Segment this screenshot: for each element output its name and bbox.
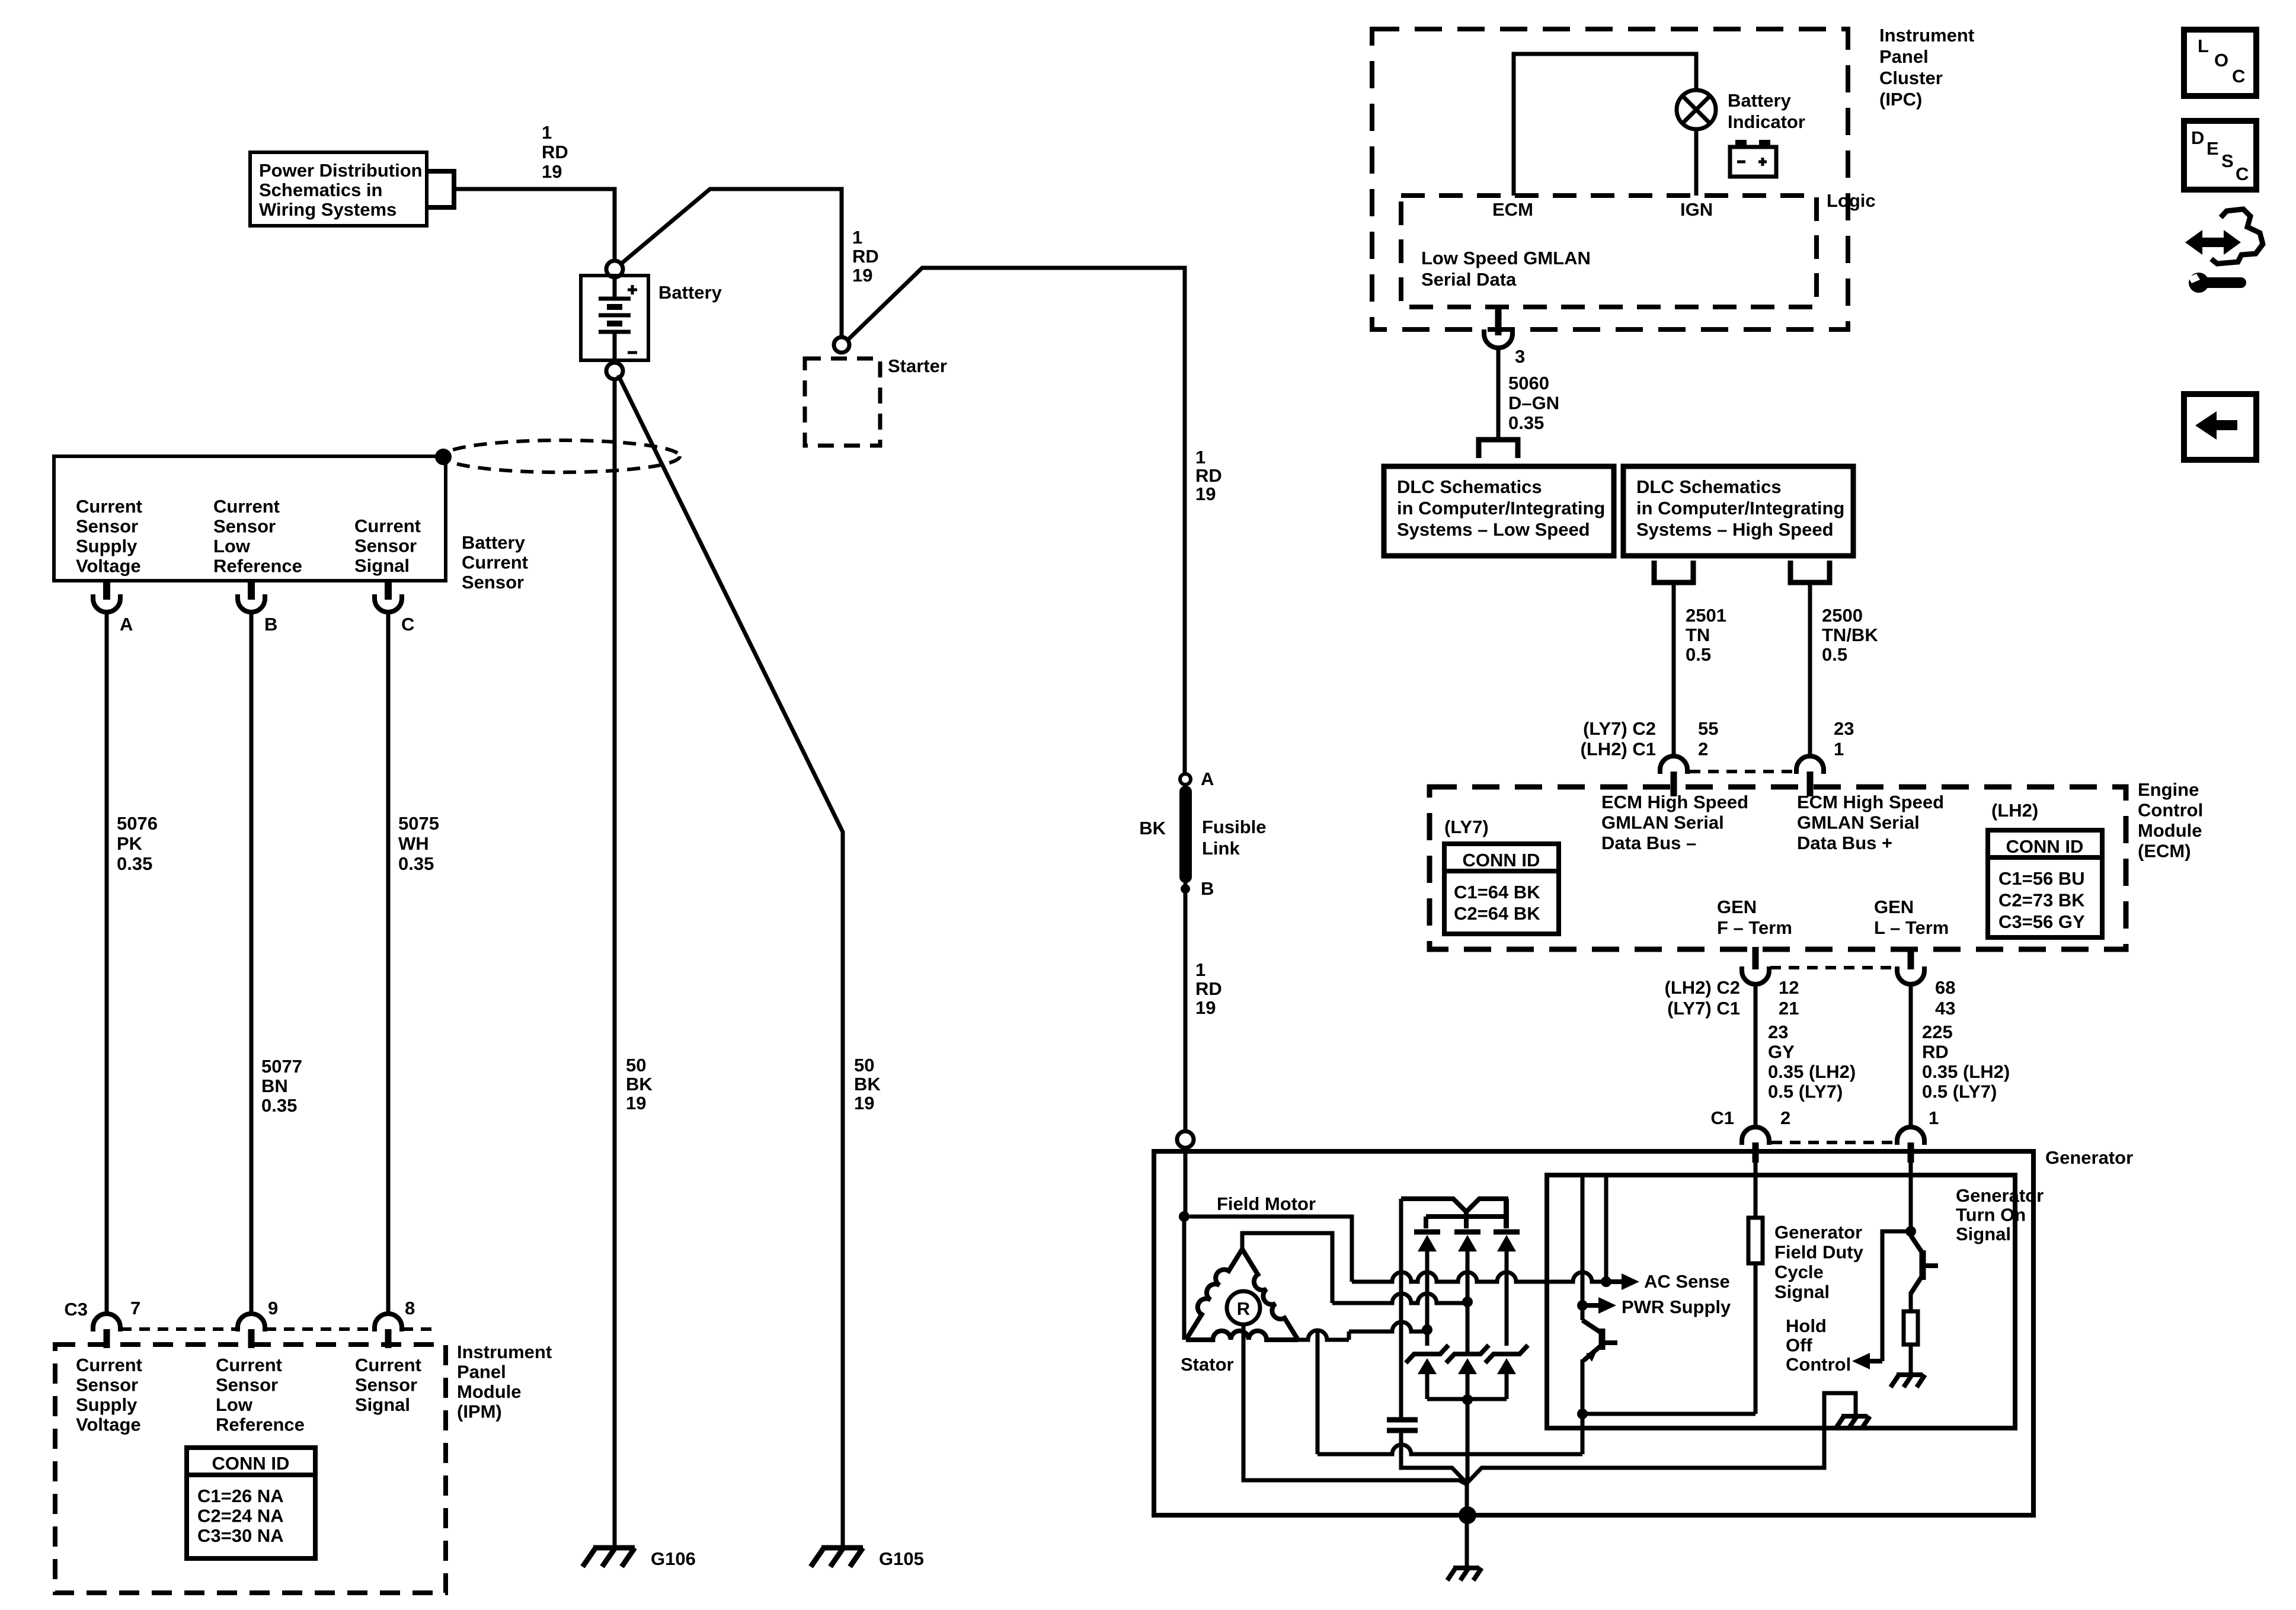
icon box back arrow [2184,394,2256,460]
svg-text:Battery: Battery [462,532,526,553]
IPC logic output pin stub [1495,307,1502,335]
connector pin A of sensor [103,581,110,600]
svg-text:Generator: Generator [1774,1222,1862,1243]
svg-text:Sensor: Sensor [354,536,417,556]
svg-text:Instrument: Instrument [457,1342,552,1362]
svg-text:GEN: GEN [1717,897,1757,917]
svg-text:2: 2 [1698,739,1708,760]
wire resistor R2 to ground [1909,1345,1913,1374]
diode D2 upper [1454,1230,1480,1235]
svg-text:Indicator: Indicator [1728,111,1805,132]
wire GEN L-Term [1909,984,1913,1127]
svg-text:C2=24 NA: C2=24 NA [197,1506,284,1526]
svg-text:F – Term: F – Term [1717,917,1792,938]
wire 2500 TN/BK [1808,585,1812,757]
wire rotor to ground bus [1243,1324,1467,1484]
wire 5077 BN circuit B [250,613,254,1314]
ECM L-Term pin stub [1908,947,1914,969]
svg-text:Current: Current [462,552,528,573]
svg-text:Panel: Panel [1879,46,1929,67]
wire rectifier positive bus [1401,1199,1506,1228]
svg-text:0.35: 0.35 [398,853,434,874]
CONN ID box IPM [187,1448,315,1558]
svg-text:C1=26 NA: C1=26 NA [197,1486,284,1506]
junction dot phase B to diode column 1 [1422,1324,1432,1335]
svg-text:Current: Current [76,496,142,517]
zener diode D6 lower [1485,1345,1528,1363]
battery B1 [581,276,648,360]
svg-text:ECM: ECM [1492,199,1533,220]
svg-text:Cluster: Cluster [1879,68,1943,88]
svg-text:23: 23 [1834,718,1854,739]
wire W1 Power Distribution to Battery positive [454,189,615,261]
wire 5076 PK circuit A [105,613,109,1314]
svg-text:19: 19 [1195,997,1216,1018]
svg-text:in Computer/Integrating: in Computer/Integrating [1397,498,1605,518]
svg-text:Data Bus +: Data Bus + [1797,833,1892,853]
transistor Q1 (field driver) [1582,1320,1600,1332]
bracket into DLC low speed box [1479,440,1518,458]
svg-text:9: 9 [268,1298,278,1318]
wire W3 starter to fusible link (top run) [848,268,1185,774]
ground hold-off [1841,1414,1868,1419]
svg-text:8: 8 [405,1298,415,1318]
svg-text:G105: G105 [879,1548,924,1569]
svg-text:(LH2) C1: (LH2) C1 [1581,739,1656,760]
wire rectifier inner bus [1426,1214,1506,1219]
svg-text:Control: Control [2138,800,2203,821]
wire B+ vertical to capacitor [1399,1199,1403,1419]
svg-text:in Computer/Integrating: in Computer/Integrating [1636,498,1844,518]
svg-text:(LY7) C1: (LY7) C1 [1667,998,1740,1019]
generator B+ terminal circle [1177,1131,1194,1148]
svg-text:5076: 5076 [117,813,158,834]
svg-text:225: 225 [1922,1022,1953,1042]
svg-text:Wiring Systems: Wiring Systems [259,199,396,220]
svg-text:55: 55 [1698,718,1718,739]
svg-text:CONN ID: CONN ID [1463,850,1540,870]
svg-text:GY: GY [1768,1042,1795,1062]
battery positive terminal circle [606,261,623,277]
junction dot on sensor box corner [435,449,452,465]
svg-text:E: E [2207,138,2219,159]
resistor R2 turn-on signal [1904,1311,1918,1345]
svg-text:Voltage: Voltage [76,556,141,577]
svg-text:50: 50 [854,1055,874,1076]
svg-text:ECM High Speed: ECM High Speed [1601,792,1748,812]
svg-text:2501: 2501 [1686,605,1726,626]
svg-text:Link: Link [1202,838,1240,859]
svg-text:Turn On: Turn On [1956,1205,2026,1225]
svg-text:(LH2) C2: (LH2) C2 [1665,977,1740,998]
generator pin 2 connector cup [1742,1127,1769,1145]
svg-text:(LY7) C2: (LY7) C2 [1583,718,1656,739]
svg-text:(IPM): (IPM) [457,1401,502,1422]
svg-text:50: 50 [626,1055,646,1076]
svg-text:Fusible: Fusible [1202,817,1267,837]
svg-text:WH: WH [398,833,429,854]
svg-text:DLC Schematics: DLC Schematics [1636,476,1782,497]
junction dot phase A to diode column 2 [1462,1297,1473,1307]
svg-text:Battery: Battery [1728,90,1792,111]
wire lamp to IGN [1694,129,1699,196]
wire ground bus right branch [1467,1393,1856,1483]
svg-text:C1=56 BU: C1=56 BU [1998,868,2085,889]
battery plus sign [628,289,637,292]
diode D1 upper [1414,1230,1440,1235]
svg-text:1: 1 [1195,959,1205,980]
wire stator phase A (apex) [1242,1233,1332,1303]
svg-text:G106: G106 [651,1548,696,1569]
svg-text:C2=73 BK: C2=73 BK [1998,890,2085,911]
svg-text:0.35 (LH2): 0.35 (LH2) [1922,1061,2010,1082]
svg-text:Supply: Supply [76,536,137,556]
svg-text:Field Motor: Field Motor [1217,1193,1316,1214]
wire generator pin 1 to turn-on node [1909,1163,1913,1231]
svg-text:Reference: Reference [216,1414,305,1435]
svg-text:Signal: Signal [1956,1224,2011,1244]
svg-text:L – Term: L – Term [1874,917,1949,938]
svg-text:Systems – Low Speed: Systems – Low Speed [1397,519,1590,540]
fusible link FL1 [1179,786,1192,883]
wire stator return to ground bus A [1316,1331,1320,1454]
svg-text:GMLAN Serial: GMLAN Serial [1601,812,1724,833]
box Engine Control Module ECM (dashed) [1430,787,2126,949]
svg-text:Current: Current [354,516,421,536]
svg-text:ECM High Speed: ECM High Speed [1797,792,1944,812]
svg-text:0.35: 0.35 [117,853,152,874]
capacitor C1 noise suppressor [1387,1417,1418,1423]
svg-text:0.5: 0.5 [1822,644,1847,665]
junction dot Q1 emitter node [1577,1409,1588,1419]
wire GEN F-Term [1754,984,1758,1127]
svg-text:0.5 (LY7): 0.5 (LY7) [1768,1081,1843,1102]
svg-text:Current: Current [76,1355,142,1375]
svg-text:Signal: Signal [354,555,410,576]
resistor R1 field duty cycle [1748,1218,1763,1263]
svg-text:Instrument: Instrument [1879,25,1974,46]
svg-text:PK: PK [117,833,143,854]
svg-text:RD: RD [542,142,568,162]
svg-text:Stator: Stator [1181,1354,1234,1375]
svg-text:Current: Current [216,1355,282,1375]
ECM connector cup (bus -) [1660,756,1687,774]
wire field duty resistor return [1582,1412,1755,1416]
wire resistor R1 to return line [1754,1263,1758,1414]
svg-text:CONN ID: CONN ID [212,1453,290,1474]
stator delta winding [1186,1249,1242,1340]
junction dot negative bus [1462,1394,1473,1405]
svg-text:A: A [120,614,133,635]
svg-text:Supply: Supply [76,1394,137,1415]
svg-text:C2=64 BK: C2=64 BK [1454,903,1540,924]
svg-text:Cycle: Cycle [1774,1262,1824,1282]
arrow AC Sense [1606,1279,1624,1284]
connector pin B of sensor [248,581,255,600]
wire field feed (B+ node to regulator) [1189,1217,1352,1282]
svg-text:19: 19 [1195,484,1216,504]
wire 50 BK to G105 (diagonal) [618,375,843,1547]
zener diode D5 lower [1446,1345,1489,1363]
svg-text:GMLAN Serial: GMLAN Serial [1797,812,1920,833]
battery minus sign [628,351,637,354]
svg-text:TN/BK: TN/BK [1822,625,1878,645]
svg-text:(ECM): (ECM) [2138,841,2191,862]
svg-text:RD: RD [1922,1042,1949,1062]
svg-text:Generator: Generator [1956,1185,2044,1206]
svg-text:IGN: IGN [1680,199,1713,220]
svg-text:Low: Low [216,1394,253,1415]
box Battery Current Sensor [54,456,446,581]
battery indicator lamp circle [1677,90,1716,129]
svg-text:12: 12 [1779,977,1799,998]
svg-text:0.5 (LY7): 0.5 (LY7) [1922,1081,1997,1102]
junction dot turn-on node [1905,1226,1916,1237]
svg-text:Sensor: Sensor [76,516,138,537]
svg-text:5060: 5060 [1508,373,1549,393]
svg-text:BK: BK [854,1074,881,1094]
wire B+ into generator [1184,1148,1188,1212]
CONN ID box LH2 [1988,830,2102,937]
svg-text:C3: C3 [64,1299,88,1320]
svg-text:(LY7): (LY7) [1444,817,1489,837]
ECM connector cup (bus +) [1796,756,1824,774]
svg-text:0.35: 0.35 [1508,412,1544,433]
wire stator phase B (right vertex) [1298,1330,1349,1340]
wire negative bus to ground node [1466,1399,1470,1483]
ground generator case [1453,1566,1479,1570]
svg-text:Data Bus –: Data Bus – [1601,833,1696,853]
svg-text:B: B [264,614,277,635]
svg-text:Starter: Starter [888,356,947,376]
svg-text:A: A [1201,769,1214,789]
rotor circle R [1227,1291,1260,1324]
svg-text:Signal: Signal [355,1394,410,1415]
svg-text:1: 1 [1929,1108,1939,1128]
svg-text:B: B [1201,878,1214,899]
CONN ID box LY7 [1444,844,1559,934]
svg-text:C: C [2232,66,2245,87]
IPM pin 8 connector cup [375,1314,402,1331]
starter box (dashed) [805,359,880,446]
svg-text:Current: Current [355,1355,421,1375]
svg-text:1: 1 [1195,447,1205,468]
wire Q2 emitter to resistor [1909,1292,1913,1311]
dashed connector row above generator [1771,1141,1894,1144]
svg-text:1: 1 [852,227,862,248]
dashed connector row C3 at IPM [121,1327,237,1331]
svg-text:RD: RD [852,246,879,267]
wire 5075 WH circuit C [386,613,391,1314]
wire hold off control to turn-on node [1882,1231,1911,1361]
svg-text:C1=64 BK: C1=64 BK [1454,882,1540,902]
svg-text:43: 43 [1935,998,1955,1019]
IPC connector cup [1484,329,1512,348]
svg-text:C1: C1 [1710,1108,1734,1128]
svg-text:O: O [2214,50,2228,71]
svg-text:21: 21 [1779,998,1799,1019]
svg-text:0.35: 0.35 [261,1095,297,1116]
ECM F-Term connector cup [1742,966,1769,984]
junction dot AC sense node [1601,1276,1611,1287]
battery indicator lamp X [1683,96,1710,123]
box Logic (dashed) [1401,196,1817,307]
svg-text:TN: TN [1686,625,1710,645]
wire V2 regulator left leg [1581,1175,1585,1320]
junction dot PWR supply tap [1577,1300,1588,1311]
svg-text:Module: Module [457,1381,522,1402]
svg-text:Generator: Generator [2045,1147,2133,1168]
dashed connector row at ECM top [1690,770,1794,773]
transistor Q2 (turn-on) [1911,1235,1921,1251]
svg-text:23: 23 [1768,1022,1788,1042]
svg-text:C: C [2236,164,2249,184]
svg-text:5077: 5077 [261,1056,302,1077]
svg-text:Module: Module [2138,820,2202,841]
svg-text:Off: Off [1786,1335,1812,1356]
icon wrench and arrows [2185,230,2241,255]
icon box LOC [2184,30,2256,96]
svg-text:19: 19 [626,1093,646,1113]
svg-text:RD: RD [1195,978,1222,999]
svg-text:BN: BN [261,1076,288,1096]
wire generator pin 2 into regulator [1754,1163,1758,1218]
wire V3 AC sense leg [1604,1175,1609,1282]
svg-text:Logic: Logic [1827,190,1876,211]
zener diode D4 lower [1406,1345,1448,1363]
ECM F-Term pin stub [1753,947,1759,969]
svg-text:(IPC): (IPC) [1879,89,1922,110]
ground G106 [593,1545,635,1551]
connector pin C of sensor [385,581,392,600]
svg-text:C3=56 GY: C3=56 GY [1998,911,2085,932]
ground G105 [821,1545,863,1551]
wire 2501 TN [1672,585,1676,757]
svg-text:Power Distribution: Power Distribution [259,160,423,181]
wire ground node to chassis [1465,1483,1469,1567]
svg-text:D–GN: D–GN [1508,393,1559,414]
wire 5060 D-GN [1496,348,1501,438]
starter terminal circle [834,337,849,353]
svg-text:1: 1 [542,122,552,143]
svg-text:Engine: Engine [2138,779,2199,800]
box voltage regulator (inner) [1547,1175,2015,1428]
svg-text:Low: Low [213,536,251,556]
svg-text:Hold: Hold [1786,1315,1827,1336]
wire rectifier negative bus [1427,1397,1507,1401]
IPM pin 7 connector cup [93,1314,120,1331]
bracket from DLC high speed box (bus +) [1790,561,1830,582]
svg-text:D: D [2191,127,2204,148]
fusible link terminal A circle [1180,774,1191,785]
svg-text:2: 2 [1780,1108,1790,1128]
svg-text:Reference: Reference [213,556,302,577]
svg-text:S: S [2221,151,2234,171]
svg-text:3: 3 [1515,346,1525,367]
ground turn-on signal [1897,1372,1923,1377]
svg-text:68: 68 [1935,977,1955,998]
svg-text:7: 7 [130,1298,140,1318]
svg-text:(LH2): (LH2) [1991,800,2038,821]
svg-text:CONN ID: CONN ID [2006,836,2084,857]
svg-text:19: 19 [542,161,562,182]
wire B+ node down to stator [1182,1217,1187,1340]
box DLC Schematics High Speed [1623,466,1853,556]
svg-text:0.35 (LH2): 0.35 (LH2) [1768,1061,1856,1082]
svg-text:Voltage: Voltage [76,1414,141,1435]
bracket from DLC high speed box (bus -) [1654,561,1693,582]
svg-text:Sensor: Sensor [355,1375,417,1395]
wire field line with jump humps [1352,1272,1601,1282]
svg-text:2500: 2500 [1822,605,1863,626]
arrow PWR Supply [1582,1303,1601,1308]
svg-text:Battery: Battery [658,282,722,303]
svg-text:Serial Data: Serial Data [1421,269,1517,290]
svg-text:Sensor: Sensor [216,1375,278,1395]
svg-text:AC Sense: AC Sense [1644,1271,1730,1292]
svg-text:Control: Control [1786,1354,1851,1375]
junction dot generator ground [1459,1506,1476,1524]
wire W2 battery positive to starter [621,189,842,337]
box Instrument Panel Module IPM (dashed) [55,1345,446,1593]
wire 50 BK to G106 [613,379,617,1547]
svg-text:R: R [1237,1298,1250,1319]
svg-text:PWR Supply: PWR Supply [1622,1297,1731,1317]
svg-text:Sensor: Sensor [76,1375,138,1395]
generator pin 1 connector cup [1897,1127,1924,1145]
box Generator [1154,1151,2033,1515]
svg-text:Low Speed GMLAN: Low Speed GMLAN [1421,248,1591,268]
svg-text:Signal: Signal [1774,1282,1830,1302]
svg-text:19: 19 [854,1093,874,1113]
wire fusible link to generator B+ [1184,883,1188,1131]
svg-text:L: L [2198,36,2209,56]
svg-text:19: 19 [852,265,872,286]
svg-text:5075: 5075 [398,813,439,834]
svg-text:BK: BK [1139,818,1166,838]
svg-text:GEN: GEN [1874,897,1914,917]
current sensor dashed ellipse loop [443,440,680,472]
fusible link terminal B dot [1181,884,1190,894]
wire capacitor to ground bus [1401,1430,1467,1483]
svg-text:C: C [401,614,414,635]
arrow Hold Off Control [1868,1359,1882,1363]
IPM pin 9 connector cup [238,1314,265,1331]
bracket connector from Power Distribution box [427,171,454,207]
diode D3 upper [1494,1230,1520,1235]
svg-text:Schematics in: Schematics in [259,180,382,200]
box DLC Schematics Low Speed [1384,466,1614,556]
junction dot B+ node [1179,1211,1189,1222]
svg-text:BK: BK [626,1074,653,1094]
wire Q1 emitter down [1581,1359,1585,1454]
wire ECM to IGN inside IPC [1514,54,1696,196]
svg-text:Current: Current [213,496,280,517]
svg-text:RD: RD [1195,465,1222,486]
icon box DESC [2184,121,2256,190]
battery cell plates [613,277,617,299]
svg-text:DLC Schematics: DLC Schematics [1397,476,1542,497]
svg-text:Field Duty: Field Duty [1774,1242,1864,1263]
svg-text:0.5: 0.5 [1686,644,1711,665]
ECM L-Term connector cup [1897,966,1924,984]
dashed connector row below ECM [1770,966,1896,969]
battery negative terminal circle [606,363,623,379]
svg-text:1: 1 [1834,739,1844,760]
box Power Distribution Schematics in Wiring Systems [250,152,427,226]
svg-text:Systems – High Speed: Systems – High Speed [1636,519,1834,540]
svg-text:Sensor: Sensor [462,572,524,593]
